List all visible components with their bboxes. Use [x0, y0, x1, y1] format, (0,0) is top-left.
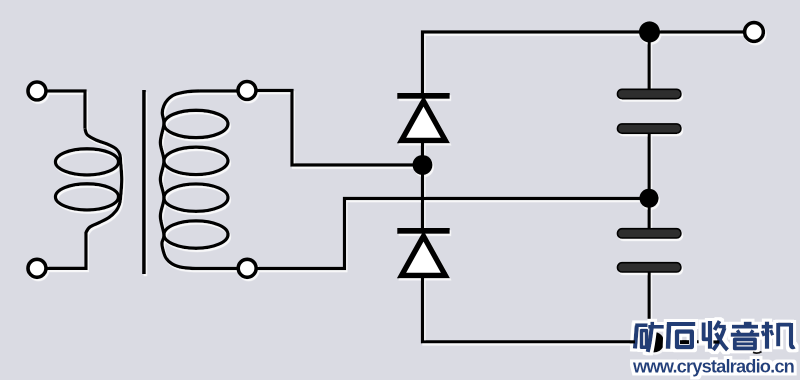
wire secondary bottom terminal to capacitor midpoint [258, 199, 643, 269]
svg-text:www.crystalradio.cn: www.crystalradio.cn [632, 355, 795, 376]
wire bottom cap to bottom rail [648, 272, 651, 342]
terminal primary top [28, 82, 46, 100]
bottom rail wire visible inside glyph shou [713, 340, 719, 343]
wire bottom diode to bottom rail [423, 278, 721, 342]
transformer T1 core [142, 90, 146, 274]
junction dot bottom rail [644, 332, 665, 353]
wire secondary top lead [200, 89, 238, 92]
transformer T1 secondary winding [160, 91, 228, 269]
transformer T1 primary winding [56, 129, 122, 234]
wire primary top lead [47, 91, 86, 129]
small dark arc artifact below glyph yin [753, 352, 762, 354]
wire top cap to top rail [648, 32, 651, 91]
watermark url text [632, 355, 795, 376]
wire top rail from diode branch to output terminal [423, 32, 744, 94]
diode D1 [397, 93, 449, 141]
terminal secondary bottom [238, 259, 256, 277]
diode D2 [397, 228, 449, 276]
wire secondary top terminal to diode junction [258, 91, 416, 166]
bottom rail wire visible at left edge of glyph kuang [630, 340, 635, 343]
terminal secondary top [238, 82, 256, 100]
junction dot between diodes [413, 155, 433, 175]
capacitor C1 [618, 89, 682, 133]
wire secondary bottom lead [200, 267, 237, 270]
terminal output positive [745, 23, 764, 42]
capacitor C2 [618, 229, 682, 272]
terminal primary bottom [28, 259, 46, 277]
junction dot middle [639, 189, 658, 208]
wire middle junction to bottom cap [648, 199, 651, 230]
black wire visible through hole of glyph shi [680, 340, 689, 344]
wire primary bottom lead [48, 234, 87, 269]
junction dot top rail [639, 21, 660, 42]
wire top cap to middle junction [648, 133, 651, 199]
wire between diodes [421, 142, 424, 229]
